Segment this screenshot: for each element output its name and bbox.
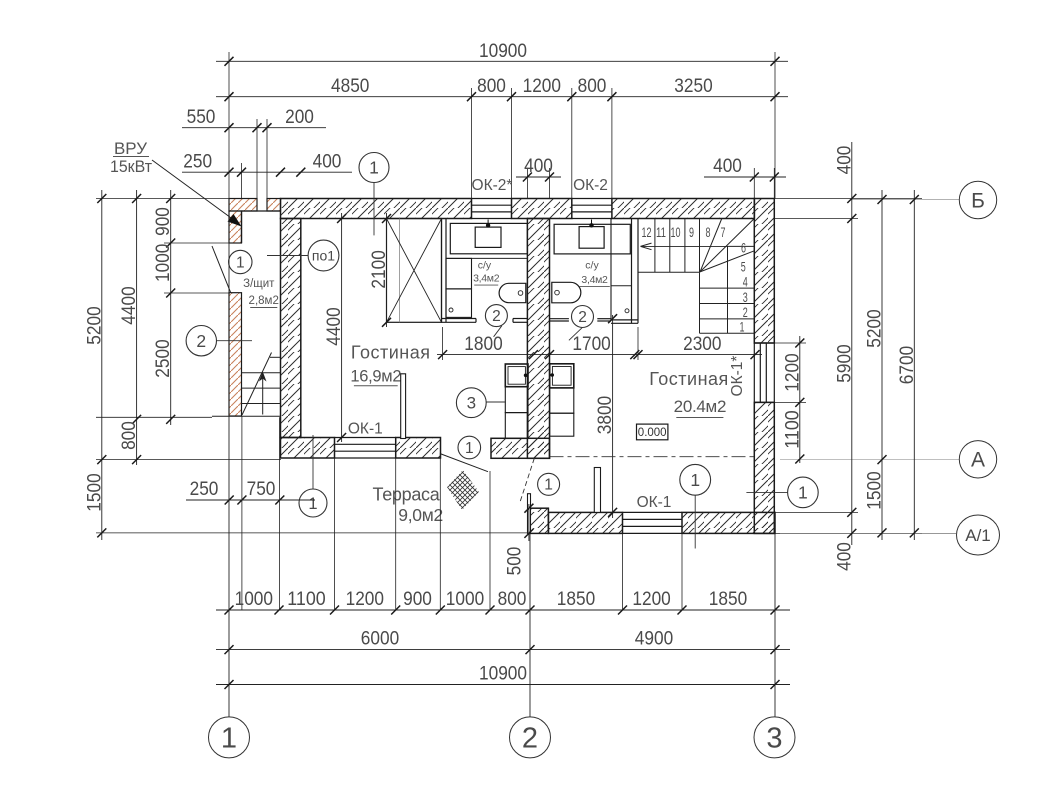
svg-text:2: 2 (578, 309, 587, 326)
svg-text:5200: 5200 (864, 309, 886, 348)
svg-text:2: 2 (492, 308, 501, 325)
svg-text:4400: 4400 (118, 286, 140, 325)
wall left main (281, 219, 301, 438)
svg-text:8: 8 (706, 224, 711, 240)
svg-text:2: 2 (196, 331, 206, 351)
left dim col 4400/800 (136, 190, 138, 465)
svg-text:900: 900 (403, 588, 432, 610)
svg-text:500: 500 (504, 546, 526, 575)
interior dim 4400 (341, 213, 343, 442)
dim row 250/400 left (182, 171, 352, 173)
svg-text:800: 800 (118, 421, 140, 450)
stair tread verticals (654, 219, 656, 273)
svg-text:1000: 1000 (152, 243, 174, 282)
kitchen mark circle 3 (456, 388, 486, 418)
wall stub right unit entry (terrace side) (491, 438, 550, 458)
dim extension stubs row 1800 (442, 327, 444, 360)
interior dim 2100 (386, 213, 388, 327)
porch slab bottom edge (212, 415, 281, 417)
svg-text:400: 400 (833, 542, 855, 571)
dim 400 centre wall (516, 176, 561, 178)
svg-text:1200: 1200 (781, 353, 803, 392)
right unit kitchen sink box (550, 364, 574, 388)
svg-text:3: 3 (766, 723, 782, 755)
right bathroom sink (579, 227, 604, 249)
stair lower flight left edge (699, 272, 701, 333)
svg-text:1850: 1850 (557, 588, 596, 610)
bottom extension lines vertical (228, 199, 230, 717)
svg-text:3250: 3250 (674, 75, 713, 97)
right bathroom vanity counter (554, 224, 630, 254)
axis circle 3 (754, 717, 795, 758)
left bathroom cabinet lower (446, 289, 472, 318)
svg-text:1200: 1200 (632, 588, 671, 610)
mark circle 2 (porch wall) (186, 326, 216, 356)
axis circle A/1 (957, 515, 1000, 555)
dim row 550/200 (182, 127, 326, 129)
svg-text:1000: 1000 (446, 588, 485, 610)
svg-text:2100: 2100 (368, 250, 390, 289)
wall mark circle 1 (top) (359, 153, 389, 183)
window mark circle 1 (right wall) (788, 477, 819, 508)
svg-text:1500: 1500 (83, 473, 105, 512)
svg-text:ОК-1*: ОК-1* (729, 356, 746, 397)
svg-text:2500: 2500 (152, 339, 174, 378)
left bathroom partition (double line) (441, 219, 443, 323)
svg-text:6000: 6000 (361, 628, 400, 650)
svg-text:1: 1 (690, 470, 700, 490)
terrace mark circle 1 (299, 489, 327, 517)
svg-text:1000: 1000 (235, 588, 274, 610)
svg-text:Терраса: Терраса (373, 485, 441, 505)
wall right upper (above window OK-1*) (754, 199, 774, 344)
door mark circle 2 (right bath) (572, 306, 594, 328)
axis circle B (959, 181, 996, 218)
left bathroom counter front line (446, 257, 527, 259)
porch wall top-right orange strip (267, 199, 281, 212)
svg-text:Б: Б (971, 189, 985, 212)
svg-text:900: 900 (152, 207, 174, 236)
right bathroom tub (552, 282, 581, 303)
dim col 6700 (913, 190, 915, 540)
svg-text:3800: 3800 (594, 396, 616, 435)
svg-text:1: 1 (544, 477, 553, 494)
right bathroom south wall w/ door opening (550, 318, 569, 320)
svg-text:А: А (971, 449, 985, 472)
window OK-2* (top wall, left unit) (472, 198, 512, 200)
svg-text:7: 7 (721, 224, 726, 240)
wall bottom right unit - step corner piece (530, 508, 549, 533)
svg-text:16,9м2: 16,9м2 (350, 367, 401, 385)
svg-text:250: 250 (183, 151, 212, 173)
svg-text:20.4м2: 20.4м2 (674, 397, 726, 416)
dim row 10900 top (216, 60, 788, 62)
porch entry door swing (212, 246, 231, 293)
svg-text:1850: 1850 (709, 588, 748, 610)
right unit entry door swing (dashed) (520, 458, 535, 503)
dim col 5200/1500 right (881, 190, 883, 540)
left bathroom sink (475, 227, 501, 247)
axis circle 1 (209, 717, 250, 758)
svg-text:1: 1 (221, 723, 237, 755)
svg-text:с/у: с/у (478, 259, 492, 271)
svg-text:5: 5 (741, 258, 746, 274)
svg-text:А/1: А/1 (965, 526, 991, 545)
svg-text:11: 11 (656, 224, 666, 240)
svg-text:2: 2 (522, 723, 538, 755)
svg-text:800: 800 (498, 588, 527, 610)
svg-text:Гостиная: Гостиная (351, 343, 431, 363)
right unit kitchen box 3 (550, 413, 574, 436)
left unit kitchen box 3 (505, 413, 528, 439)
svg-text:2,8м2: 2,8м2 (249, 295, 279, 307)
right extension lines (775, 198, 922, 200)
axis circle A (959, 441, 996, 478)
wall top segment B between windows (512, 199, 572, 219)
porch steps treads (242, 372, 281, 374)
wall top segment A (hatched) (281, 199, 472, 219)
wall right lower (below window OK-1*) (754, 402, 774, 533)
right unit entry door leaf (528, 494, 531, 534)
stair well corner (728, 245, 755, 247)
svg-text:5200: 5200 (83, 306, 105, 345)
svg-text:5900: 5900 (833, 344, 855, 383)
svg-text:ОК-2: ОК-2 (573, 177, 608, 194)
left unit kitchen sink box (505, 364, 528, 387)
svg-text:Гостиная: Гостиная (649, 369, 729, 389)
wall bottom right unit - west piece (548, 512, 622, 533)
porch wall west upper orange (229, 211, 242, 243)
svg-text:3: 3 (467, 394, 476, 413)
opening mark po1 (308, 240, 339, 271)
svg-text:6700: 6700 (896, 346, 918, 385)
dim 400 right wall (704, 176, 786, 178)
svg-text:с/у: с/у (585, 259, 599, 271)
dim col 400/5900/400 (851, 142, 853, 545)
svg-text:1: 1 (369, 158, 379, 178)
left bathroom south wall w/ door opening (442, 318, 477, 320)
svg-text:1: 1 (308, 495, 317, 513)
left bathroom tap (487, 220, 489, 228)
svg-text:ОК-1: ОК-1 (348, 421, 383, 438)
VRU leader arrow (152, 160, 238, 223)
door mark circle 1 (terrace door) (458, 436, 481, 459)
terrace door swing diagonal (441, 454, 488, 472)
svg-text:4: 4 (743, 274, 748, 290)
svg-text:10900: 10900 (479, 40, 527, 62)
svg-text:4400: 4400 (323, 307, 345, 346)
left dim col 5200/1500 (101, 190, 103, 540)
right bathroom divider (610, 219, 612, 320)
porch steps up-arrow (262, 374, 264, 415)
left extension lines (96, 198, 229, 200)
stair upper flight bottom (638, 271, 700, 273)
svg-text:1800: 1800 (464, 333, 503, 355)
svg-text:4850: 4850 (331, 75, 370, 97)
interior dim 3800 (612, 315, 614, 518)
porch steps break diagonal (242, 353, 272, 416)
svg-text:15кВт: 15кВт (110, 157, 152, 176)
left unit wall stub (narrow) (401, 374, 406, 439)
right bathroom partition (double line) (631, 219, 633, 324)
svg-text:1500: 1500 (864, 471, 886, 510)
bottom dim row 1 (216, 609, 790, 611)
svg-text:4900: 4900 (635, 628, 674, 650)
svg-text:3: 3 (743, 289, 748, 305)
elevation mark 0.000 (637, 424, 668, 440)
svg-text:400: 400 (524, 155, 553, 177)
stair walk line + arrow (641, 245, 728, 247)
porch niche outline (VRU recess) (242, 210, 281, 212)
svg-text:0.000: 0.000 (638, 427, 667, 439)
stair winder diagonals (700, 219, 722, 272)
wall top segment C (over stairs) (612, 199, 755, 219)
svg-text:1: 1 (740, 319, 745, 335)
left unit kitchen box 2 (505, 387, 528, 413)
svg-text:400: 400 (833, 145, 855, 174)
axis A dashed line in right unit (550, 456, 755, 458)
svg-text:750: 750 (247, 478, 276, 500)
dim row 250/750 (186, 499, 315, 501)
axis line A/1 to circle (780, 532, 956, 534)
wall bottom left unit - west piece (281, 438, 335, 459)
vent shaft box with X (387, 219, 442, 323)
door mark circle 2 (left bath) (485, 305, 507, 327)
bottom dim row 10900 (216, 684, 790, 686)
window OK-2 (top wall, right unit) (572, 198, 612, 200)
svg-text:9: 9 (689, 224, 694, 240)
bottom dim row 6000/4900 (216, 649, 790, 651)
right closet shelf line (611, 285, 632, 287)
left bathroom cabinet upper (446, 258, 472, 289)
svg-text:3,4м2: 3,4м2 (581, 274, 608, 286)
axis circle 2 (510, 717, 551, 758)
svg-text:1100: 1100 (781, 410, 803, 449)
svg-text:10: 10 (671, 224, 681, 240)
left bathroom tub (499, 283, 526, 302)
axis line B to circle (850, 199, 959, 201)
door mark circle 1 (porch) (229, 250, 252, 273)
left bathroom vanity counter (450, 223, 527, 253)
svg-text:1700: 1700 (572, 333, 611, 355)
svg-text:1: 1 (236, 254, 245, 271)
svg-text:3,4м2: 3,4м2 (473, 273, 500, 285)
right unit radiator (594, 468, 600, 513)
top extension lines (228, 52, 230, 199)
svg-text:1100: 1100 (287, 588, 326, 610)
svg-text:400: 400 (713, 155, 742, 177)
svg-text:550: 550 (187, 106, 216, 128)
wall bottom left unit - east piece (396, 438, 441, 459)
svg-text:1200: 1200 (523, 75, 562, 97)
terrace crosshatch patch (447, 470, 479, 510)
svg-text:З/щит: З/щит (243, 278, 275, 290)
svg-text:1: 1 (798, 483, 808, 503)
dim row 4850/800/1200/800/3250 (216, 96, 788, 98)
porch wall top-left orange strip (229, 199, 257, 212)
axis line A to circle (780, 458, 959, 460)
svg-text:800: 800 (477, 75, 506, 97)
svg-text:ВРУ: ВРУ (114, 139, 147, 158)
stair lower treads (700, 287, 755, 289)
door mark circle 1 (right entry) (538, 473, 560, 495)
svg-text:ОК-2*: ОК-2* (472, 177, 513, 194)
svg-text:250: 250 (190, 478, 219, 500)
svg-text:200: 200 (285, 106, 314, 128)
porch wall west lower orange (229, 293, 242, 416)
window OK-1 (bottom wall, right unit) (623, 511, 683, 513)
svg-text:1: 1 (465, 440, 474, 457)
window OK-1* (right wall) (753, 343, 755, 402)
right unit kitchen box 2 (550, 388, 574, 413)
left dim col 900/1000/2500 (170, 190, 172, 425)
right bathroom tap (591, 220, 593, 228)
svg-text:400: 400 (313, 151, 342, 173)
svg-text:ОК-1: ОК-1 (637, 494, 672, 511)
svg-text:800: 800 (578, 75, 607, 97)
svg-text:по1: по1 (312, 247, 335, 263)
dim 500 vertical (528, 504, 530, 541)
svg-text:2300: 2300 (683, 333, 722, 355)
wall centre (between units) (527, 219, 549, 459)
svg-text:1200: 1200 (346, 588, 385, 610)
svg-text:9,0м2: 9,0м2 (398, 505, 443, 525)
window mark circle 1 (right room) (680, 464, 711, 495)
dim col 1200/1100 (799, 336, 801, 463)
wall bottom right unit - east piece (682, 512, 775, 533)
svg-text:10900: 10900 (479, 663, 527, 685)
svg-text:12: 12 (642, 224, 652, 240)
window OK-1 (bottom wall, left unit) (335, 437, 396, 439)
svg-text:6: 6 (741, 239, 746, 255)
dim row 1800/1700/2300 line (437, 354, 762, 356)
